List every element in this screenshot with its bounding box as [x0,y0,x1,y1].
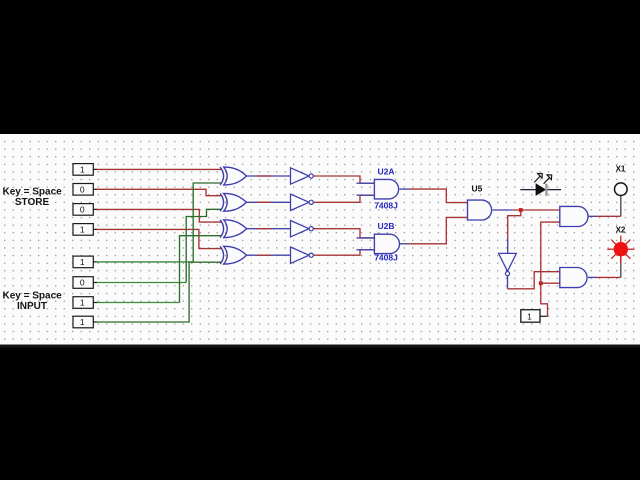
wire XOR out to inverter in (blue) [247,254,291,256]
constant 1 box [521,310,548,323]
svg-text:1: 1 [80,165,85,175]
wire XOR out to inverter in (blue) [247,228,291,230]
wire INPUT3 to XOR3.B (green) [180,236,222,303]
wire AND2 out to X2 (red) [596,276,621,278]
wire U5 out stub (blue) [493,209,513,211]
wire AND1 out to X1 (red) [596,215,621,217]
wire U5 out to AND1.A (red) [512,209,559,211]
wire STORE2 to XOR2.A (red) [97,189,222,195]
wire INPUT1 horizontal (green) [97,261,193,263]
wire inverter1 to U2A.A (red) [313,176,374,183]
inverter N1 [291,168,314,184]
probe X2 rays [607,236,634,263]
AND gate U7 [560,206,588,226]
inverter N4 [291,247,314,263]
svg-text:1: 1 [80,298,85,308]
LED LED1 emission arrow 1 [534,173,542,182]
wire inverter3 to U2B.A (red) [313,229,374,238]
svg-text:INPUT: INPUT [17,301,47,312]
wire into U2B.B (blue) [357,249,375,251]
wire U2B out stub (blue) [400,243,408,245]
LED LED1 symbol wire [520,189,561,191]
switch S7 INPUT bit 3 (value 1) [73,297,97,309]
wire STORE1 to XOR1.A (red) [97,168,222,170]
svg-text:U5: U5 [472,184,483,194]
wire INPUT2 to XOR2.B (green) [186,209,221,282]
wire into inverter U6 (blue) [507,239,509,253]
wire INPUT2 horizontal (green) [97,282,186,284]
wire middle segment (red) [257,175,271,177]
svg-text:1: 1 [80,257,85,267]
wire inverter U6 out (blue) [507,276,509,289]
wire probe X1 stub (grey) [620,196,622,217]
schematic sheet background [0,134,640,346]
XOR gate X1 [220,167,246,185]
wire inverter4 to U2B.B (red) [313,250,374,255]
svg-text:STORE: STORE [15,197,50,208]
wire U2A out to U5.A (red) [410,189,468,203]
switch S3 STORE bit 3 (value 0) [73,204,97,216]
svg-text:1: 1 [80,225,85,235]
wire U2A out stub (blue) [400,188,411,190]
probe X1 lamp [615,183,628,196]
XOR gate X2 [220,193,246,211]
wire branch to inverter U6 (red) [508,210,521,239]
wire probe X2 stub (grey) [620,256,622,277]
wire into U2A.B (blue) [357,194,375,196]
wire STORE4 to XOR4.A (red) [97,229,222,248]
wire AND2 out stub (blue) [588,276,596,278]
XOR gate X4 [220,246,246,264]
svg-text:Key = Space: Key = Space [3,291,63,302]
svg-text:0: 0 [80,278,85,288]
switch S1 STORE bit 1 (value 1) [73,164,97,176]
wire INPUT4 to XOR4.B (green) [97,262,222,322]
wire constant to junction J2 (red) [541,283,548,316]
svg-text:7408J: 7408J [374,252,398,262]
AND gate U2A [374,179,398,199]
svg-text:U2A: U2A [378,166,395,176]
wire XOR out to inverter in (blue) [247,201,291,203]
wire J2 up to AND1.B (red) [541,222,560,283]
AND gate U2B [374,234,399,253]
svg-text:0: 0 [80,184,85,194]
svg-text:X1: X1 [616,164,626,173]
wire middle segment (red) [257,228,271,230]
AND gate U5 [468,200,492,220]
inverter N2 [291,194,314,210]
inverter N3 [291,221,314,237]
wire INPUT3 horizontal (green) [97,302,180,304]
wire STORE3 to XOR3.A (red) [97,209,222,222]
svg-text:0: 0 [80,205,85,215]
wire INPUT1 to XOR1.B (green) [193,183,221,262]
wire middle segment (red) [257,201,271,203]
wire XOR out to inverter in (blue) [247,175,291,177]
svg-text:Key = Space: Key = Space [3,187,63,198]
wire U6 out to AND2.A (red) [508,272,560,289]
wire J2 to AND2.B (red) [541,282,560,284]
wire middle segment (red) [257,254,271,256]
switch S4 STORE bit 4 (value 1) [73,224,97,236]
LED LED1 emission arrow 2 [544,175,552,184]
svg-text:1: 1 [527,312,532,322]
LED LED1 cathode bar [545,184,547,196]
wire into U2A.A (blue) [357,182,375,184]
AND gate U8 [560,268,587,288]
svg-text:X2: X2 [616,225,626,234]
switch S2 STORE bit 2 (value 0) [73,184,97,196]
inverter U6 (pointing down) [499,253,517,275]
probe X2 lamp lit [614,242,628,256]
svg-text:U2B: U2B [378,221,395,231]
wire into U2B.A (blue) [357,237,375,239]
svg-text:1: 1 [80,317,85,327]
svg-text:7408J: 7408J [374,200,398,210]
switch S6 INPUT bit 2 (value 0) [73,277,97,289]
junction J1 [519,208,523,212]
LED LED1 triangle [536,183,547,196]
switch S5 INPUT bit 1 (value 1) [73,256,97,268]
XOR gate X3 [220,220,246,238]
wire inverter2 to U2A.B (red) [313,195,374,202]
wire AND1 out stub (blue) [588,215,596,217]
switch S8 INPUT bit 4 (value 1) [73,316,97,328]
wire U2B out to U5.B (red) [408,217,468,243]
junction J2 [539,281,543,285]
